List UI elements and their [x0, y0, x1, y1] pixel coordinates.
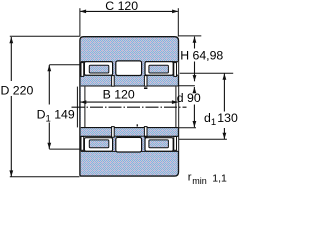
- svg-text:d 90: d 90: [177, 91, 201, 105]
- svg-text:1,1: 1,1: [212, 172, 227, 184]
- svg-text:H 64,98: H 64,98: [180, 49, 223, 63]
- svg-text:D 220: D 220: [1, 83, 34, 97]
- svg-text:B 120: B 120: [103, 88, 135, 102]
- svg-text:r: r: [188, 172, 192, 184]
- svg-text:min: min: [192, 176, 207, 186]
- svg-text:130: 130: [217, 111, 238, 125]
